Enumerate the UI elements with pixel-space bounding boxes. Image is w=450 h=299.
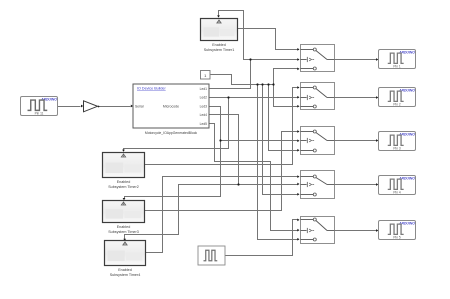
- wire: const branch to switch1 bottom: [274, 69, 298, 85]
- block: Arduino digital output Pin 2: [379, 88, 416, 107]
- block: switch 1: [301, 45, 335, 72]
- wire: Led1 branch to Timer1 enable loop: [219, 11, 251, 60]
- svg-text:Motorcycle_IOAppGeneratedBlock: Motorcycle_IOAppGeneratedBlock: [145, 131, 198, 135]
- wire: switch3 output to Pin3 block: [335, 140, 377, 142]
- wire: Led2 to switch2 control: [209, 97, 298, 99]
- svg-text:Serial: Serial: [135, 105, 144, 109]
- svg-text:Enabled: Enabled: [118, 268, 132, 272]
- svg-text:Pin 1: Pin 1: [393, 64, 400, 68]
- svg-text:Enabled: Enabled: [117, 180, 131, 184]
- block: Arduino digital output Pin 5: [379, 221, 416, 240]
- wire: pulse generator to switch5 top: [225, 220, 298, 256]
- svg-text:IO Device Builder: IO Device Builder: [137, 86, 166, 90]
- block: gain (triangle): [84, 101, 98, 112]
- wire: switch1 output to Pin1 block: [335, 59, 377, 61]
- wire: Led4 branch to Timer4 enable: [125, 185, 239, 240]
- svg-text:Enabled: Enabled: [117, 225, 131, 229]
- svg-text:Microcode: Microcode: [163, 105, 179, 109]
- wire: const branch to switch3 bottom: [269, 85, 298, 151]
- svg-text:Pin 5: Pin 5: [393, 235, 400, 239]
- wire: Led1 to switch1 control: [209, 60, 298, 89]
- block: constant 1: [201, 71, 211, 80]
- wire: Led5 to switch5 control: [209, 124, 298, 231]
- svg-text:Pin 2: Pin 2: [393, 102, 400, 106]
- wire: switch2 output to Pin2 block: [335, 97, 377, 99]
- block: pulse generator: [198, 246, 225, 265]
- svg-text:Pin 11: Pin 11: [35, 111, 44, 115]
- wire: Timer4 output to switch4 top: [145, 177, 298, 253]
- wire: gain to serial port: [99, 106, 131, 108]
- block: Arduino digital output Pin 1: [379, 50, 416, 69]
- block: switch 4: [301, 171, 335, 199]
- block: Arduino digital output Pin 3: [379, 132, 416, 151]
- block: Enabled Subsystem Timer2: [103, 153, 145, 178]
- wire: switch5 output to Pin5 block: [335, 230, 377, 232]
- svg-text:Led4: Led4: [200, 113, 208, 117]
- svg-text:Led5: Led5: [200, 122, 208, 126]
- svg-text:Subsystem Timer2: Subsystem Timer2: [108, 185, 139, 189]
- svg-text:Subsystem Timer3: Subsystem Timer3: [108, 230, 139, 234]
- svg-text:Led3: Led3: [200, 104, 208, 108]
- wire: constant to switch bottoms bus: [211, 75, 274, 85]
- svg-text:Led1: Led1: [200, 87, 208, 91]
- block: switch 5: [301, 217, 335, 244]
- svg-text:Subsystem Timer1: Subsystem Timer1: [204, 48, 235, 52]
- wire: const branch to switch4 bottom: [263, 85, 298, 195]
- wire: Timer2 output to switch2: [145, 88, 298, 165]
- wire: digital input to gain: [58, 106, 81, 108]
- wire: Led3 branch to Timer3 enable: [125, 141, 221, 199]
- wire: Led4 to switch4 control: [209, 115, 298, 185]
- block: Arduino digital output Pin 4: [379, 176, 416, 195]
- wire: Timer3 output to switch3: [145, 132, 298, 211]
- wire: switch4 output to Pin4 block: [335, 184, 377, 186]
- block: IO Device Builder / Microcycle main block: [133, 84, 209, 128]
- block: switch 3: [301, 127, 335, 155]
- block: Arduino digital input Pin 11: [21, 97, 58, 116]
- wire: const branch to switch2 bottom: [274, 85, 298, 107]
- wire: Timer1 output to switch1: [237, 29, 298, 50]
- svg-text:Pin 3: Pin 3: [393, 146, 400, 150]
- wire: Led2 branch to Timer2 enable: [124, 98, 229, 151]
- svg-text:Pin 4: Pin 4: [393, 190, 400, 194]
- svg-text:Subsystem Timer4: Subsystem Timer4: [110, 273, 141, 277]
- block: Enabled Subsystem Timer3: [103, 201, 145, 223]
- block: Enabled Subsystem Timer1: [201, 19, 238, 41]
- svg-text:Enabled: Enabled: [212, 43, 226, 47]
- wire: const branch to switch5 bottom: [258, 85, 298, 240]
- block: Enabled Subsystem Timer4: [105, 241, 146, 266]
- block: switch 2: [301, 83, 335, 110]
- wire: Led3 to switch3 control: [209, 107, 298, 141]
- svg-text:Led2: Led2: [200, 96, 208, 100]
